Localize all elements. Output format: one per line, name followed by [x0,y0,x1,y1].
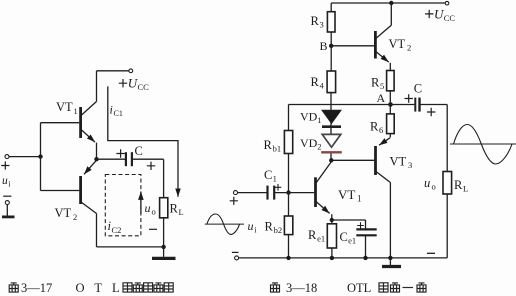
plus sign input fig2 [230,197,238,205]
svg-text:3: 3 [320,20,324,30]
svg-text:6: 6 [379,125,383,135]
svg-text:3—18: 3—18 [286,281,317,295]
wire bottom rail fig2 [239,257,448,259]
capacitor Ce1 [365,220,367,229]
svg-text:u: u [145,201,151,215]
input terminal (+) [5,155,9,159]
svg-text:1: 1 [357,194,362,204]
svg-text:R: R [371,76,380,90]
node input bus junction [38,154,42,158]
svg-text:1: 1 [317,115,321,125]
svg-text:3: 3 [408,160,412,170]
svg-text:L: L [463,184,468,194]
svg-text:C: C [340,230,348,244]
wire diode branch [330,93,332,134]
svg-text:i: i [8,180,11,189]
resistor R4 [330,46,332,71]
svg-text:C: C [135,144,143,158]
sine wave output fig2 [450,143,516,145]
svg-text:R: R [264,138,273,152]
minus sign input fig2 [232,251,239,253]
wire B to VT2 base [331,45,374,47]
transistor VT3 [374,146,377,175]
svg-text:VT: VT [56,100,73,114]
svg-text:5: 5 [380,81,384,91]
minus sign near uo [149,228,157,230]
svg-text:u: u [424,176,430,190]
diode VD2 [322,134,341,147]
svg-text:B: B [320,39,328,53]
caption fig 3-18 [271,283,280,292]
svg-text:C: C [264,168,272,182]
wire top rail fig2 [331,2,445,4]
wire bus vertical [40,123,42,191]
wire junction to capacitor [97,158,126,160]
input terminal fig2 bottom [235,256,239,260]
wire emitter rail [332,219,366,221]
input terminal fig2 top [234,191,238,195]
node B [329,44,333,48]
dashed loop iC2 [105,175,141,236]
svg-text:C2: C2 [112,225,122,235]
wire top rail [97,70,129,72]
capacitor C (fig2) [414,98,416,112]
node diode bottom [329,158,333,162]
ground input terminal [3,195,11,197]
terminal +Ucc right [445,1,449,5]
svg-text:VD: VD [300,136,318,150]
node Re1 bottom [330,256,334,260]
wire to VT2 base [41,190,80,192]
plus sign C1 [275,184,282,191]
svg-text:o: o [432,182,436,192]
wire capacitor to RL branch [132,159,164,198]
wire input to bus [9,156,41,158]
svg-text:i: i [254,226,257,235]
svg-text:L: L [179,207,184,217]
svg-text:R: R [454,178,463,192]
svg-text:VT: VT [55,206,72,220]
plus sign A rail [405,94,413,102]
node bottom junction [161,245,165,249]
svg-text:b2: b2 [274,225,283,235]
plus sign cap right [147,162,155,170]
svg-text:VT: VT [389,37,406,51]
svg-text:OTL: OTL [347,281,371,295]
node A [388,102,393,107]
plus sign cap left [116,149,124,157]
svg-text:R: R [370,120,379,134]
svg-text:1: 1 [273,174,277,184]
svg-text:e1: e1 [317,234,325,244]
svg-text:R: R [265,220,274,234]
resistor Rb1 [284,131,292,154]
minus sign bottom right fig2 [427,252,435,254]
diode VD1 [322,110,341,123]
branch Rb1/Rb2 [288,105,290,131]
wire VT1 base [274,192,314,194]
svg-text:o: o [152,207,156,217]
svg-text:R: R [170,202,179,216]
svg-text:i: i [110,103,113,117]
svg-text:b1: b1 [273,144,282,154]
svg-text:2: 2 [73,212,77,222]
svg-text:R: R [311,75,320,89]
wire to VT3 base [331,159,374,161]
svg-text:C: C [414,82,422,96]
svg-text:R: R [308,228,317,242]
svg-text:3—17: 3—17 [21,281,52,295]
transistor VT2 [79,176,82,204]
node VT1 emitter [330,218,334,222]
plus sign input [1,161,9,169]
ground (fig2) [389,258,391,265]
transistor VT2 (fig2) [374,31,377,59]
node top collector junction [389,1,393,5]
capacitor C1 [266,186,268,200]
svg-text:2: 2 [407,43,411,53]
svg-text:O T L: O T L [76,281,124,295]
svg-text:1: 1 [74,106,78,116]
plus sign Ucc left [119,79,127,87]
svg-text:e1: e1 [348,236,356,246]
terminal +Ucc left [129,69,133,73]
resistor R3 [330,3,332,12]
transistor VT1 (fig2) [314,177,317,207]
plus sign Ucc right [425,10,433,18]
caption fig 3-17 [9,283,18,292]
node emitter junction [94,157,98,161]
resistor RL (fig2) [443,172,452,195]
svg-text:C1: C1 [114,109,123,118]
svg-text:CC: CC [444,13,456,23]
resistor Re1 [331,220,333,224]
ground (fig1) [163,247,165,257]
current iC1 path with arrow [108,86,178,196]
node VT3 collector bottom [388,256,392,260]
resistor Rb2 [284,216,292,235]
resistor R6 [387,114,395,134]
svg-text:4: 4 [320,81,325,91]
wire A rail [289,104,415,106]
svg-text:R: R [311,14,320,28]
plus sign Ce1 [357,222,364,229]
svg-text:VT: VT [390,155,407,169]
svg-text:VD: VD [300,110,318,124]
wire bottom rail [97,246,164,248]
wire to VT1 base [41,122,80,124]
wire RL to bottom [163,218,165,247]
resistor RL (fig1) [160,198,168,218]
node C1 junction [286,190,290,194]
node Ce1 bottom [363,256,367,260]
arrow uo [140,192,142,214]
svg-text:u: u [248,219,254,233]
svg-text:u: u [2,175,8,187]
svg-text:CC: CC [138,82,150,92]
node Rb2 bottom [286,256,290,260]
capacitor C (fig1) [125,152,127,166]
resistor R5 [387,71,395,91]
svg-text:2: 2 [317,142,321,152]
svg-text:A: A [377,91,386,105]
svg-text:VT: VT [338,187,355,202]
transistor VT1 [79,107,82,138]
plus sign right of C [427,108,435,116]
sine wave ui fig2 [205,223,244,225]
